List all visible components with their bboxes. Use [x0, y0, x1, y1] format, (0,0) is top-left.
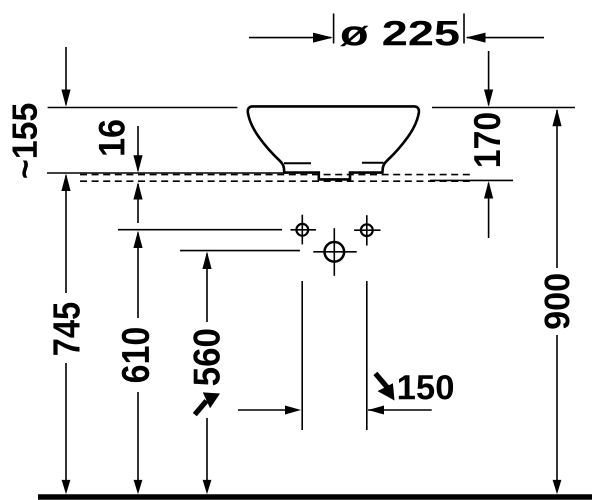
arrow left at o225 right [466, 33, 486, 43]
150 dim line left [238, 409, 287, 411]
hole center circle [325, 242, 345, 262]
150 dim line right [368, 409, 432, 411]
dashed line lower [80, 180, 470, 182]
arrow up 610 top [133, 231, 142, 248]
610 dim line lower [137, 392, 139, 482]
hole center crosshair [313, 228, 356, 276]
arrow up 900 top [552, 109, 561, 127]
170 lower arrow line [488, 183, 490, 238]
label ~155 [13, 104, 38, 178]
745 dim line lower [65, 363, 67, 482]
arrow down 16 top [133, 155, 142, 172]
floor line [38, 494, 592, 500]
dim line o225 right [467, 37, 544, 39]
150 witness right [366, 281, 368, 430]
diagonal arrow NE for 560 [193, 392, 220, 416]
arrow down 610 floor [134, 480, 143, 494]
arrow up 560 top [202, 252, 211, 270]
arrowheads [61, 33, 561, 495]
arrow left 150 right [368, 406, 384, 415]
16 lower arrow line [137, 184, 139, 223]
arrow up 16 bottom [133, 182, 142, 200]
dim line o225 left [249, 37, 331, 39]
label 150 [399, 375, 453, 400]
label 900 [544, 274, 569, 328]
arrow right at o225 left [313, 33, 333, 43]
610 dim line upper [137, 233, 139, 319]
label 610 [122, 328, 150, 382]
countertop solid line [47, 172, 286, 174]
hole small left crosshair [291, 215, 317, 245]
label 745 [53, 303, 80, 355]
label ø 225 [340, 21, 459, 47]
arrow down 745 floor [62, 480, 71, 494]
arrow up 745 top [61, 174, 70, 191]
16 upper arrow line [137, 126, 139, 171]
610 reference line [118, 229, 282, 231]
label 16 [99, 120, 125, 155]
arrow down 900 floor [553, 480, 562, 494]
label 560 [193, 330, 220, 386]
witness o225 left [333, 14, 335, 44]
900 dim line upper [556, 110, 558, 268]
washbasin outline [248, 106, 419, 179]
rim line right [432, 107, 575, 109]
witness o225 right [463, 14, 465, 44]
hole small left circle [296, 224, 308, 236]
560 dim line lower [206, 418, 208, 482]
745 dim line upper [65, 176, 67, 294]
arrow right 150 left [285, 406, 301, 415]
basin inner tick right [362, 162, 384, 164]
900 dim line lower [556, 335, 558, 482]
arrow down 155 top [61, 90, 70, 107]
basin inner tick left [284, 162, 311, 164]
155 upper arrow line [65, 47, 67, 105]
hole small right circle [361, 224, 373, 236]
arrow down 560 floor [203, 480, 212, 494]
170 upper arrow line [488, 51, 490, 105]
560 reference line [180, 250, 300, 252]
arrow up 170 bottom [484, 181, 493, 199]
hole small right crosshair [354, 215, 380, 245]
countertop solid segment right (170 ref) [430, 179, 513, 181]
diagonal arrow SE for 150 [373, 372, 394, 401]
label 170 [474, 113, 501, 166]
rim line left [48, 107, 238, 109]
dashed line upper [80, 174, 471, 176]
150 witness left [301, 281, 303, 430]
arrow down 170 top [484, 90, 493, 107]
560 dim line upper [206, 254, 208, 323]
